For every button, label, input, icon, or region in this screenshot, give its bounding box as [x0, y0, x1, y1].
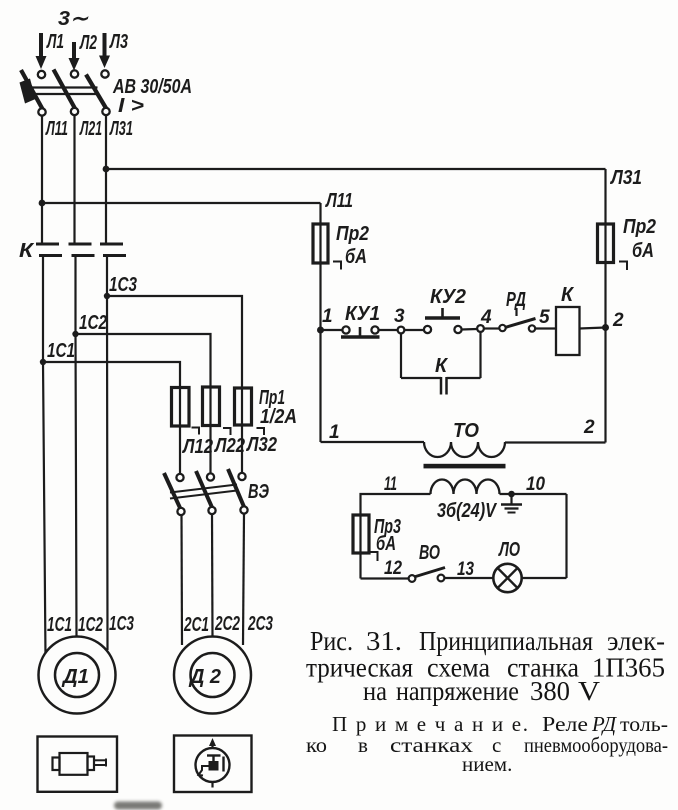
node 4 (terminal) [477, 325, 484, 332]
svg-text:КУ2: КУ2 [430, 286, 466, 308]
svg-text:Пр2: Пр2 [623, 216, 656, 238]
svg-text:КУ1: КУ1 [345, 303, 380, 325]
svg-text:12: 12 [384, 558, 402, 579]
svg-text:Л11: Л11 [324, 190, 353, 212]
fuse Пр1 pole 3 [235, 388, 252, 425]
node 2 (dot) [602, 324, 609, 331]
button КУ2 (NO start) [424, 308, 462, 333]
wire Л11 to control circuit left rail [42, 202, 321, 204]
wire through fuse 3 to ВЭ [241, 390, 243, 473]
svg-text:Л1: Л1 [46, 31, 64, 53]
contactor K main contact pole 2 [69, 244, 95, 256]
svg-text:нанапряжение380V: нанапряжение380V [363, 676, 601, 706]
transformer ТО primary winding [424, 442, 505, 457]
fuse holder mark pole 2 [223, 428, 231, 435]
svg-text:1/2А: 1/2А [260, 406, 297, 428]
circuit breaker АВ 30/50А : blades [21, 70, 107, 110]
wire ВЭ to motor Д2 line 1 [180, 515, 183, 645]
wire right branch vertical [565, 494, 567, 578]
wire РД to coil К [535, 327, 556, 329]
breaker top terminal circles [38, 70, 109, 78]
svg-text:1С3: 1С3 [109, 613, 134, 635]
wire КУ1 to node 3 [379, 329, 398, 331]
fuse Пр2 left [313, 224, 328, 263]
fuse holder mark Пр2 left [333, 262, 341, 270]
svg-text:4: 4 [480, 307, 492, 328]
contactor K main contact pole 3 [100, 244, 126, 256]
wire 1С1 branch [43, 362, 180, 390]
wire through fuse 2 to ВЭ [209, 390, 211, 474]
contactor coil К [556, 307, 580, 355]
wire through fuse 1 to ВЭ [179, 390, 181, 474]
svg-text:3б(24)V: 3б(24)V [437, 500, 497, 522]
phase input arrow Л1 [36, 33, 47, 69]
svg-text:Л21: Л21 [79, 118, 102, 140]
wire node 4 to РД [484, 327, 500, 329]
fuse holder mark pole 1 [192, 428, 200, 435]
svg-text:2: 2 [583, 417, 595, 438]
svg-text:1С3: 1С3 [109, 274, 137, 296]
button КУ1 (NC stop) [341, 326, 380, 337]
svg-text:К: К [19, 240, 35, 262]
wire 1С2 branch [76, 334, 211, 390]
switch ВЭ bottom terminals [177, 506, 247, 515]
wire phase L1 vertical lower to motor [43, 255, 46, 658]
svg-text:бА: бА [632, 240, 654, 262]
holding contact К [401, 377, 481, 395]
svg-text:Л11: Л11 [45, 118, 68, 140]
svg-text:2: 2 [612, 310, 624, 331]
wire ВЭ to motor Д2 line 3 [243, 514, 244, 646]
fuse holder mark Пр3 [370, 552, 378, 561]
svg-text:ТО: ТО [453, 420, 479, 442]
svg-text:К: К [561, 284, 575, 306]
wire ВЭ to motor Д2 line 2 [211, 514, 214, 638]
node 10 junction dot [508, 491, 515, 498]
box: pneumatic equipment icon [174, 736, 252, 793]
wire coil К to node 2 [580, 328, 606, 329]
svg-text:бА: бА [376, 533, 396, 555]
contactor K main contact pole 1 [36, 244, 62, 256]
wire phase L3 vertical lower to motor [106, 255, 109, 651]
svg-text:3: 3 [394, 306, 405, 327]
wire secondary right (node 10) [500, 493, 567, 495]
svg-text:Л31: Л31 [109, 118, 133, 140]
fuse Пр3 [353, 515, 369, 553]
wire holding branch right (from node 4) [479, 332, 481, 378]
svg-text:ЛО: ЛО [498, 539, 521, 561]
svg-text:1: 1 [322, 306, 333, 327]
node 1С3 junction [104, 293, 110, 299]
fuse Пр1 pole 1 [172, 388, 190, 427]
control circuit right rail [604, 169, 606, 443]
circuit breaker handle (solid) [20, 79, 36, 104]
breaker bottom terminal circles [38, 108, 109, 116]
wire phase L2 vertical lower to motor [76, 255, 77, 639]
svg-text:1: 1 [329, 422, 340, 443]
wire lamp to right branch [522, 577, 567, 579]
wire secondary left (node 11) [361, 494, 431, 516]
node 3 (terminal) [398, 327, 405, 334]
fuse Пр1 pole 2 [203, 387, 220, 426]
svg-text:РД: РД [506, 289, 526, 311]
svg-text:2С1: 2С1 [183, 614, 209, 636]
node 1 (dot) [317, 327, 324, 334]
wire node 3 to КУ2 [405, 329, 425, 331]
svg-text:2С2: 2С2 [214, 613, 240, 635]
svg-text:1С2: 1С2 [78, 614, 103, 636]
switch ВЭ top terminals [176, 473, 245, 481]
node 1С2 junction [72, 331, 78, 337]
svg-text:13: 13 [457, 559, 474, 580]
wire 1С3 branch [107, 296, 242, 390]
svg-text:бА: бА [345, 246, 367, 268]
svg-text:Л22: Л22 [213, 435, 245, 457]
svg-text:Д1: Д1 [61, 666, 89, 688]
wire through fuse Пр3 [359, 516, 361, 579]
control bottom rail right [505, 441, 606, 443]
wire phase L2 vertical upper [73, 115, 75, 244]
svg-text:10: 10 [526, 474, 545, 495]
svg-text:3∼: 3∼ [58, 8, 89, 30]
svg-text:Л2: Л2 [79, 32, 97, 54]
ground symbol [501, 494, 522, 513]
svg-text:ВЭ: ВЭ [248, 481, 269, 503]
wire holding branch left (from node 3) [400, 333, 402, 378]
wire ВО to lamp [445, 577, 494, 579]
control circuit left rail [319, 203, 321, 442]
node junction on L3 (to control Л31) [103, 166, 110, 173]
lamp ЛО [493, 564, 521, 592]
svg-text:Пр2: Пр2 [336, 223, 369, 245]
phase input arrow Л2 [69, 42, 80, 71]
svg-text:1С1: 1С1 [47, 340, 75, 362]
node junction on L1 (to control Л11) [39, 200, 46, 207]
svg-text:Л12: Л12 [181, 436, 213, 458]
wire phase L1 vertical upper [41, 116, 43, 244]
fuse Пр2 right [598, 224, 614, 263]
node 1С1 junction [40, 359, 46, 365]
svg-text:2С3: 2С3 [247, 613, 273, 635]
relay contact РД [499, 308, 535, 332]
circuit breaker crossbar [28, 88, 98, 95]
motor Д2 [174, 637, 251, 714]
svg-text:Д 2: Д 2 [188, 666, 221, 688]
phase input arrow Л3 [99, 33, 110, 68]
fuse holder mark Пр2 right [619, 262, 627, 271]
svg-text:Л32: Л32 [245, 434, 277, 456]
switch ВО [409, 568, 445, 582]
svg-text:I >: I > [118, 95, 144, 117]
wire КУ2 to node 4 [462, 328, 478, 331]
switch ВЭ crossbar [170, 485, 237, 499]
svg-text:11: 11 [384, 474, 397, 495]
svg-text:нием.: нием. [462, 752, 512, 776]
svg-text:1С1: 1С1 [47, 614, 72, 636]
control bottom rail left [321, 441, 425, 443]
switch ВЭ blades [164, 469, 245, 510]
wire node1 to КУ1 [321, 329, 343, 331]
svg-text:К: К [435, 355, 449, 377]
transformer core [424, 464, 506, 469]
wire Пр3 to ВО [361, 577, 409, 579]
svg-text:5: 5 [539, 307, 550, 328]
svg-text:ВО: ВО [419, 542, 440, 564]
bottom edge scan smudge [114, 802, 162, 810]
wire phase L3 vertical upper [105, 115, 107, 244]
svg-text:Л31: Л31 [609, 167, 642, 189]
svg-text:1С2: 1С2 [79, 312, 107, 334]
fuse holder mark pole 3 [257, 428, 265, 435]
svg-text:Л3: Л3 [109, 31, 128, 53]
box: spindle drive icon [38, 737, 118, 792]
motor Д1 [39, 637, 116, 714]
transformer ТО secondary winding [431, 480, 500, 495]
wire Л31 to control circuit top [106, 168, 606, 170]
